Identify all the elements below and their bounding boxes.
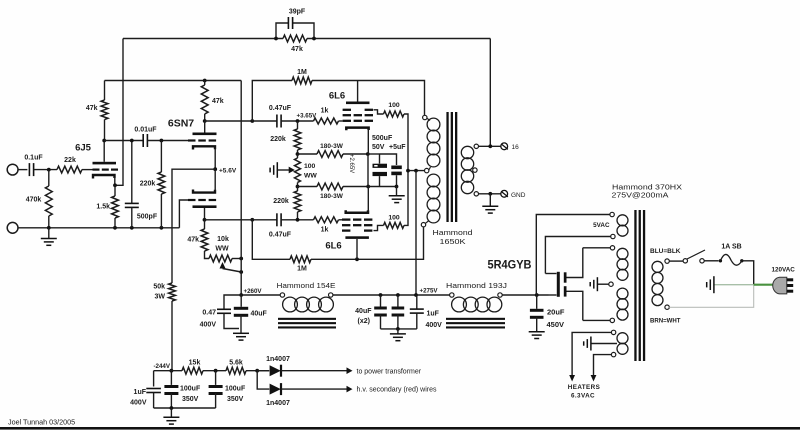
triode 6SN7 section 1: [168, 118, 217, 170]
resistor 470k: [26, 170, 52, 228]
wire heater lead 2: [591, 355, 612, 382]
wire lower 1M jog: [252, 220, 423, 261]
choke Hammond 154E: [277, 281, 337, 329]
svg-text:100: 100: [388, 102, 400, 109]
wire B+ row upper: [105, 79, 242, 83]
svg-text:180-3W: 180-3W: [320, 193, 344, 200]
capacitor 1uF 400V bias: [130, 371, 161, 408]
svg-text:(x2): (x2): [358, 318, 370, 325]
resistor 1M lower: [290, 256, 311, 273]
svg-text:100uF: 100uF: [180, 386, 201, 393]
svg-text:1k: 1k: [321, 227, 329, 234]
svg-text:1.5k: 1.5k: [96, 204, 110, 211]
wire 40uF bottom row: [381, 327, 417, 331]
svg-text:470k: 470k: [26, 197, 42, 204]
svg-text:1k: 1k: [321, 108, 329, 115]
capacitor 0.47uF upper: [252, 105, 317, 128]
svg-text:1A SB: 1A SB: [721, 244, 741, 251]
label +2.65V rotated: [348, 154, 354, 173]
svg-text:+275V: +275V: [420, 287, 439, 294]
wire 6L6 lower cathode lead: [367, 187, 369, 213]
svg-text:6SN7: 6SN7: [168, 118, 194, 130]
transformer core 1650K: [446, 112, 457, 222]
svg-text:GND: GND: [511, 192, 526, 199]
wire bias bottom row: [154, 406, 216, 410]
scan border bottom: [0, 427, 800, 430]
svg-text:180-3W: 180-3W: [320, 143, 344, 150]
svg-text:1650K: 1650K: [440, 237, 466, 246]
resistor 5.6k: [226, 360, 246, 375]
fuse 1A SB: [719, 244, 744, 266]
wire 1M jog: [252, 81, 424, 122]
potentiometer 100 WW hum balance: [277, 154, 317, 187]
label Hammond 1650K: [433, 228, 473, 246]
capacitor 500pF: [125, 141, 158, 228]
ground 20uF: [529, 332, 545, 339]
wire cathode tail: [172, 169, 215, 283]
resistor 22k: [57, 157, 93, 173]
svg-text:6.3VAC: 6.3VAC: [571, 393, 595, 400]
resistor 100 lower screen: [384, 171, 409, 229]
svg-text:5.6k: 5.6k: [229, 360, 243, 367]
svg-text:10k: 10k: [217, 236, 229, 243]
diode 1n4007 upper: [257, 356, 352, 377]
wire GND tap: [479, 192, 501, 196]
wire HV bottom: [583, 319, 610, 321]
svg-text:BLU=BLK: BLU=BLK: [650, 248, 681, 255]
label 120VAC: [772, 266, 796, 273]
diode 1n4007 lower: [257, 371, 352, 407]
transformer Hammond 1650K primary: [421, 115, 440, 227]
svg-text:50k: 50k: [153, 284, 165, 291]
wire bypass bottom row: [368, 185, 398, 189]
svg-text:500uF: 500uF: [372, 135, 393, 142]
wire 16 ohm tap: [479, 144, 501, 148]
label Joel Tunnah: [8, 418, 75, 427]
wire +275V row: [333, 287, 450, 297]
ground bias: [163, 408, 179, 424]
resistor 220k lower: [273, 187, 301, 220]
ground 40uF x2: [390, 329, 406, 341]
wire upper cathode row 180 ohm: [296, 152, 370, 156]
wire OPT center tap: [406, 169, 424, 173]
capacitor 40uF x2 b: [392, 295, 405, 329]
resistor 47k 6SN7 plate load: [201, 81, 223, 122]
svg-text:350V: 350V: [182, 396, 199, 403]
svg-text:100: 100: [388, 215, 400, 222]
winding heater 6.3VAC: [611, 330, 628, 357]
resistor 100 upper screen: [384, 102, 409, 171]
capacitor 100uF 350V b: [209, 371, 246, 408]
svg-text:+5.6V: +5.6V: [219, 167, 237, 174]
ground mains safety: [707, 276, 714, 293]
winding primary 120V: [652, 259, 669, 310]
svg-text:+5uF: +5uF: [389, 144, 406, 151]
ground 40uF: [233, 333, 249, 340]
wire 6L6 cathode bus: [367, 154, 369, 187]
resistor 1k upper grid stopper: [314, 108, 343, 125]
wire fuse to plug: [742, 261, 754, 285]
svg-text:-244V: -244V: [153, 363, 170, 370]
svg-text:Hammond: Hammond: [433, 228, 473, 237]
label 5R4GYB: [488, 260, 532, 272]
svg-text:15k: 15k: [189, 360, 201, 367]
wire primary hot: [669, 260, 683, 262]
capacitor 39pF: [274, 9, 316, 41]
svg-text:100uF: 100uF: [225, 386, 246, 393]
plug 120VAC: [773, 277, 793, 294]
pentode 6L6 upper: [329, 81, 373, 131]
svg-text:450V: 450V: [547, 320, 565, 329]
svg-text:120VAC: 120VAC: [772, 266, 796, 273]
wire switch to fuse: [704, 260, 718, 262]
svg-text:1n4007: 1n4007: [266, 400, 290, 407]
wire 6L6 upper screen lead: [374, 110, 384, 114]
wire safety ground green: [714, 284, 773, 286]
wire ground bus: [18, 226, 179, 230]
svg-text:1n4007: 1n4007: [266, 356, 290, 363]
wire 6L6 lower screen lead: [374, 225, 384, 230]
svg-text:Hammond 154E: Hammond 154E: [277, 281, 336, 290]
transformer 370HX core: [634, 210, 645, 361]
svg-text:400V: 400V: [200, 322, 217, 329]
svg-text:6J5: 6J5: [75, 143, 92, 154]
svg-text:47k: 47k: [212, 98, 224, 105]
svg-text:400V: 400V: [426, 322, 443, 329]
winding 5VAC: [593, 212, 628, 238]
capacitor 1uF 400V: [410, 295, 442, 329]
ground 6L6 cathode: [389, 187, 405, 203]
svg-text:to power transformer: to power transformer: [357, 368, 422, 375]
wire feedback right vertical to 16 ohm tap: [489, 39, 491, 147]
label to power transformer: [357, 368, 422, 375]
input jack bottom: [7, 222, 18, 233]
terminal GND: [501, 190, 526, 198]
resistor 180-3W lower: [317, 183, 344, 200]
wire lower cathode row 180 ohm: [296, 185, 371, 189]
svg-text:220k: 220k: [140, 181, 156, 188]
svg-text:0.47uF: 0.47uF: [269, 105, 292, 112]
wire mains neutral return: [669, 285, 753, 308]
wire 6L6 upper cathode lead: [367, 129, 369, 155]
resistor 47k feedback: [283, 35, 307, 53]
winding HV secondary: [609, 246, 628, 323]
node +5.6V cathode junction: [213, 167, 237, 174]
triode 6J5: [75, 141, 118, 186]
svg-text:275V@200mA: 275V@200mA: [612, 191, 669, 200]
resistor 1k lower grid stopper: [314, 217, 343, 234]
ground heater center tap: [584, 337, 617, 351]
wire -244V row: [153, 363, 269, 373]
svg-text:47k: 47k: [291, 46, 303, 53]
triode 6SN7 section 2 (inverted): [188, 169, 217, 220]
pentode 6L6 lower: [325, 210, 372, 259]
svg-text:1uF: 1uF: [427, 311, 440, 318]
capacitor 0.47uF lower: [205, 213, 314, 238]
choke Hammond 193J: [446, 281, 507, 329]
wire grid2 return: [179, 200, 188, 228]
label h.v. secondary: [357, 387, 438, 394]
svg-text:500pF: 500pF: [137, 214, 158, 221]
svg-text:47k: 47k: [187, 237, 199, 244]
svg-text:5R4GYB: 5R4GYB: [488, 260, 532, 272]
svg-text:16: 16: [512, 144, 520, 151]
capacitor 0.47 400V: [200, 295, 242, 329]
ground OPT secondary: [482, 194, 498, 213]
svg-text:BRN=WHT: BRN=WHT: [650, 318, 681, 325]
svg-text:+2.65V: +2.65V: [348, 154, 354, 173]
label BLU=BLK: [650, 248, 681, 255]
svg-text:22k: 22k: [64, 157, 76, 164]
capacitor 40uF x2 a: [374, 295, 387, 329]
svg-text:50V: 50V: [372, 144, 385, 151]
svg-text:40uF: 40uF: [251, 311, 268, 318]
resistor 15k: [182, 360, 203, 375]
resistor 1.5k: [96, 185, 118, 228]
svg-text:20uF: 20uF: [547, 308, 565, 317]
svg-text:h.v. secondary (red) wires: h.v. secondary (red) wires: [357, 387, 438, 394]
svg-text:1uF: 1uF: [134, 389, 147, 396]
potentiometer 10k WW: [209, 236, 243, 274]
capacitor 40uF: [234, 295, 268, 333]
ground input: [41, 228, 57, 246]
svg-text:220k: 220k: [270, 136, 286, 143]
wire 5VAC top to B+: [536, 215, 610, 296]
node 6J5 cathode: [113, 183, 117, 187]
switch power: [683, 250, 705, 263]
wire +260V node: [239, 288, 280, 297]
wire 5VAC bottom: [545, 237, 610, 274]
wire heater lead 1: [569, 332, 611, 381]
svg-text:0.47uF: 0.47uF: [269, 232, 292, 239]
wire B+ from CT down: [415, 171, 417, 295]
resistor 1M upper: [292, 69, 312, 84]
label HEATERS 6.3VAC: [568, 384, 600, 400]
rectifier 5R4GYB: [545, 248, 582, 321]
wire B+ vertical x=241: [240, 81, 242, 296]
svg-text:40uF: 40uF: [355, 308, 372, 315]
svg-text:6L6: 6L6: [329, 91, 345, 102]
svg-text:Joel Tunnah 03/2005: Joel Tunnah 03/2005: [8, 418, 75, 427]
label 40uF (x2): [355, 308, 372, 325]
svg-text:Hammond 193J: Hammond 193J: [446, 281, 507, 290]
wire B+ to rectifier: [502, 293, 548, 297]
capacitor 5uF: [380, 144, 407, 187]
svg-text:39pF: 39pF: [289, 9, 306, 16]
resistor 220k upper: [270, 121, 301, 154]
svg-text:0.01uF: 0.01uF: [134, 127, 157, 134]
wire triode1 plate node row: [203, 119, 254, 123]
transformer 1650K secondary: [461, 144, 478, 196]
svg-text:1M: 1M: [297, 69, 307, 76]
capacitor 500uF 50V: [368, 135, 393, 187]
svg-text:100: 100: [304, 163, 316, 170]
capacitor 20uF 450V: [530, 295, 565, 332]
svg-text:+260V: +260V: [244, 288, 263, 295]
svg-text:47k: 47k: [86, 105, 98, 112]
resistor 180-3W upper: [317, 143, 344, 157]
svg-text:0.47: 0.47: [202, 310, 216, 317]
label BRN=WHT: [650, 318, 681, 325]
svg-text:220k: 220k: [273, 198, 289, 205]
svg-text:1M: 1M: [297, 266, 307, 273]
resistor 50k 3W tail: [153, 283, 175, 371]
input jack top: [7, 164, 27, 175]
svg-text:0.1uF: 0.1uF: [24, 155, 43, 162]
svg-text:WW: WW: [215, 246, 229, 253]
ground HV center tap: [590, 277, 609, 291]
svg-text:400V: 400V: [130, 400, 147, 407]
resistor 47k triode2 plate load: [187, 218, 209, 259]
capacitor 0.1uF: [24, 155, 57, 177]
svg-text:5VAC: 5VAC: [593, 222, 610, 229]
svg-text:WW: WW: [304, 173, 317, 180]
resistor 220k 6SN7 grid leak: [140, 141, 165, 228]
resistor 47k 6J5 plate load: [86, 81, 108, 141]
svg-text:6L6: 6L6: [325, 241, 341, 252]
wire HV top: [583, 247, 611, 249]
svg-text:350V: 350V: [227, 396, 244, 403]
svg-text:3W: 3W: [155, 294, 166, 301]
capacitor 0.01uF: [102, 127, 188, 148]
wire feedback left vertical: [115, 39, 123, 186]
label Hammond 370HX: [612, 183, 683, 200]
svg-text:HEATERS: HEATERS: [568, 384, 600, 391]
ground hum pot wiper: [270, 162, 277, 178]
wire feedback top line: [123, 38, 490, 40]
capacitor 100uF 350V a: [164, 371, 201, 408]
terminal 16: [501, 143, 519, 151]
